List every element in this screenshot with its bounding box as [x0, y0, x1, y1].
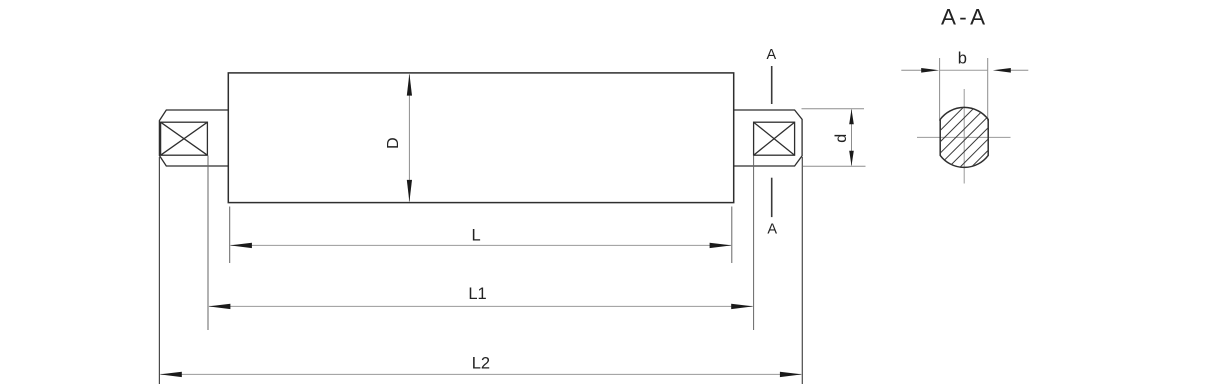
- section view shaft cross-section outline: [940, 107, 988, 167]
- svg-text:L2: L2: [472, 354, 490, 372]
- left bearing box: [161, 122, 208, 155]
- dimension d extension lines: [802, 109, 866, 167]
- svg-text:D: D: [385, 137, 402, 149]
- svg-text:L: L: [472, 227, 481, 245]
- section label A top: [766, 47, 776, 63]
- dimension L label: [472, 227, 481, 245]
- dimension b extension lines: [940, 58, 988, 121]
- dimension L extension lines: [230, 207, 732, 264]
- dimension L2 extension lines: [159, 157, 802, 384]
- dimension D arrows: [407, 74, 412, 202]
- section line A upper segment: [771, 66, 773, 104]
- dimension L1 arrows: [208, 304, 753, 309]
- dimension L2 label: [472, 354, 490, 372]
- roller body outline: [228, 73, 733, 203]
- dimension b label: [958, 50, 967, 68]
- svg-text:A: A: [767, 221, 777, 237]
- svg-text:A: A: [766, 47, 776, 63]
- dimension b right leader and arrow: [1010, 69, 1028, 71]
- section view hatching: [884, 100, 1049, 175]
- section view vertical centerline: [963, 89, 965, 184]
- section view title A - A: [941, 4, 985, 29]
- dimension d label: [833, 134, 850, 143]
- dimension L line: [231, 244, 732, 246]
- svg-text:d: d: [833, 134, 850, 143]
- dimension d line: [851, 110, 853, 166]
- svg-text:b: b: [958, 50, 967, 68]
- dimension L2 arrows: [160, 372, 802, 377]
- dimension L1 line: [209, 305, 753, 307]
- dimension D line: [408, 75, 410, 202]
- dimension L2 line: [160, 373, 801, 375]
- section label A bottom: [767, 221, 777, 237]
- right shaft journal outline: [734, 110, 802, 166]
- dimension b line: [940, 69, 988, 71]
- right bearing box: [754, 122, 795, 155]
- dimension L arrows: [230, 243, 732, 248]
- dimension b left leader and arrow: [901, 69, 921, 71]
- section line A lower segment: [771, 178, 773, 217]
- dimension L1 extension lines: [208, 156, 754, 331]
- svg-text:A - A: A - A: [941, 4, 985, 29]
- left shaft journal outline: [159, 110, 228, 166]
- dimension d arrows: [849, 109, 854, 166]
- section view horizontal centerline: [917, 136, 1011, 138]
- dimension L1 label: [468, 285, 486, 303]
- dimension D label: [385, 137, 402, 149]
- svg-text:L1: L1: [468, 285, 486, 303]
